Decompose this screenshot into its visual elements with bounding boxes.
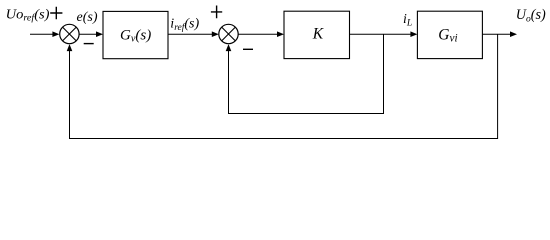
minus sign at S2 (243, 48, 253, 50)
node i_ref(s) label (170, 17, 199, 33)
output wire (482, 31, 517, 37)
node e(s) label (77, 10, 98, 25)
svg-text:Gv(s): Gv(s) (120, 28, 151, 45)
svg-text:e(s): e(s) (77, 10, 98, 25)
summing junction S2 (219, 24, 238, 43)
wire S1 to Gv (79, 31, 103, 37)
block Gv(s) (103, 11, 168, 58)
block K (284, 11, 350, 58)
wire S2 to K (238, 31, 284, 37)
wire Gv to S2 (168, 31, 219, 37)
plus sign at S2 (211, 6, 222, 19)
outer feedback wire from output tap to S1 (67, 34, 498, 138)
input wire (30, 31, 59, 37)
svg-text:Uo(s): Uo(s) (516, 7, 546, 24)
wire K to Gvi with tap node (350, 31, 418, 37)
input label Uo_ref(s) (6, 8, 50, 24)
output label Uo(s) (516, 7, 546, 24)
svg-text:K: K (312, 26, 324, 43)
inner feedback wire from i_L tap to S2 (226, 34, 384, 113)
block Gvi (417, 11, 482, 58)
plus sign at summing junction S1 (50, 7, 62, 20)
summing junction S1 (60, 24, 79, 43)
node i_L label (403, 11, 412, 29)
minus sign at S1 (84, 43, 94, 45)
